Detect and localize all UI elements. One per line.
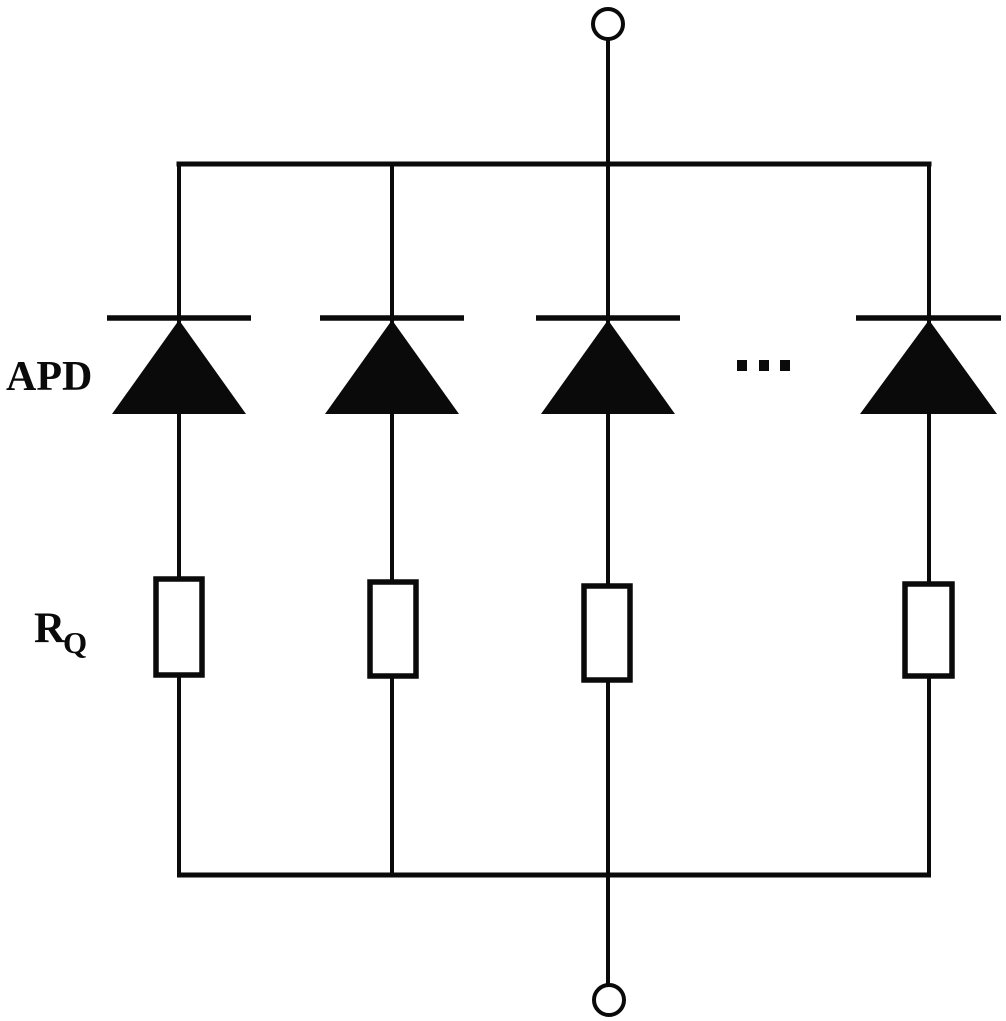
bottom bus wire [177,873,931,878]
wire from bottom bus node down to bottom terminal [606,875,610,986]
terminal T2 (bottom, open circle) [594,985,624,1015]
svg-text:APD: APD [6,354,92,400]
wire: resistor R3 to bottom bus [606,680,610,877]
wire: resistor R4 to bottom bus [927,676,931,877]
wire: D1 anode to resistor R1 [177,413,181,579]
label APD [6,354,92,400]
APD diode D2 anode triangle [325,320,459,414]
quenching resistor R2 (branch 2) [370,582,416,676]
quenching resistor R4 (branch 4) [905,584,952,676]
quenching resistor R1 (branch 1) [156,579,202,675]
wire from top terminal down to node on top bus [606,39,610,164]
APD diode D4 anode triangle [860,320,997,414]
APD diode D1 cathode bar [107,315,251,321]
svg-text:Q: Q [63,625,87,660]
wire: D4 anode to resistor R4 [927,413,931,584]
quenching resistor R3 (branch 3) [584,586,630,680]
wire: D3 anode to resistor R3 [606,413,610,586]
terminal T1 (top, open circle) [593,9,623,39]
wire: branch 4 from top bus to diode D4 [927,162,931,324]
ellipsis dots between branch 3 and branch 4 [737,360,790,371]
APD diode D2 cathode bar [320,315,464,321]
APD diode D3 anode triangle [541,320,675,414]
svg-text:R: R [34,605,66,652]
wire: branch 3 from top bus to diode D3 [606,164,610,323]
APD diode D4 cathode bar [856,315,1001,321]
wire: branch 2 from top bus to diode D2 [390,162,394,324]
wire: branch 1 from top bus to diode D1 [177,162,181,324]
label RQ [34,605,87,660]
wire: resistor R2 to bottom bus [390,676,394,877]
wire: D2 anode to resistor R2 [390,413,394,582]
APD diode D1 anode triangle [112,320,246,414]
APD diode D3 cathode bar [536,315,680,321]
wire: resistor R1 to bottom bus [177,675,181,877]
top bus wire [177,162,932,167]
